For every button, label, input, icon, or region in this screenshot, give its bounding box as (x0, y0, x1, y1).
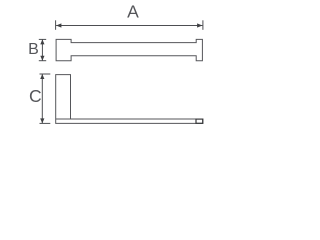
dimension B top arrowhead (40, 39, 44, 44)
svg-text:B: B (28, 41, 39, 58)
dimension B bottom arrowhead (40, 56, 44, 61)
dimension C top arrowhead (40, 74, 44, 79)
dimension C bottom tick (40, 122, 51, 124)
side view post and bar outline (56, 75, 203, 124)
svg-text:A: A (127, 2, 139, 22)
dimension A line (56, 25, 202, 27)
side view bar top inner line (56, 118, 71, 120)
top view bar outline (56, 39, 202, 60)
dimension A left arrowhead (56, 23, 61, 27)
dimension B bottom tick (39, 60, 46, 62)
dimension B line (41, 39, 43, 60)
dimension A left tick (55, 20, 57, 30)
dimension A right arrowhead (197, 23, 202, 27)
side view bar end cap (196, 119, 203, 123)
dimension A right tick (202, 20, 204, 30)
dimension B top tick (39, 38, 46, 40)
dimension C line (41, 74, 43, 123)
dimension C top tick (40, 73, 51, 75)
dimension C bottom arrowhead (40, 118, 44, 123)
svg-text:C: C (29, 86, 42, 106)
